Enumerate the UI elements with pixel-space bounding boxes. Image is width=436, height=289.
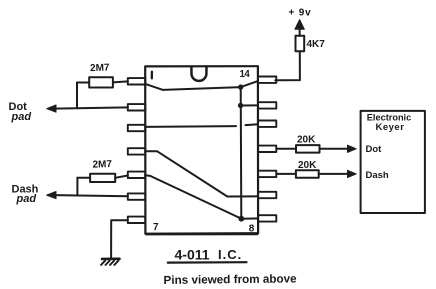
IC notch (pin 1 index) xyxy=(191,67,206,81)
svg-text:8: 8 xyxy=(249,224,255,235)
wire pin 7 to ground xyxy=(111,220,128,258)
wire internal pin4 to pin9 diagonal xyxy=(145,151,258,196)
arrowhead to dot pad xyxy=(47,105,56,112)
arrowhead keyer dash input xyxy=(348,170,357,177)
wire +9v arrow to R3 xyxy=(299,28,301,36)
arrowhead keyer dot input xyxy=(348,145,357,152)
junction dot at pin13 xyxy=(238,103,243,108)
wire R2 left lead xyxy=(77,177,90,179)
wire vertical R1 to dot pad line xyxy=(76,83,78,109)
svg-text:2M7: 2M7 xyxy=(92,159,112,171)
wire R1 right lead to pin 1 xyxy=(113,81,128,82)
wire internal stub to pin 8 xyxy=(241,218,258,220)
wire dash pad line to pin 6 xyxy=(55,195,128,196)
wire internal pin3 to pin12 (left of bus) xyxy=(145,125,236,128)
svg-text:14: 14 xyxy=(240,69,251,80)
junction dot at pin8 xyxy=(238,216,244,222)
pin 3 xyxy=(128,125,146,131)
resistor R1 2M7 body (dot pad) xyxy=(89,77,113,87)
svg-text:Keyer: Keyer xyxy=(376,122,405,133)
resistor R2 2M7 body (dash pad) xyxy=(90,174,115,182)
wire vertical R2 to dash pad line xyxy=(76,178,78,195)
svg-text:2M7: 2M7 xyxy=(90,62,110,74)
wire internal pin3 to pin12 (right of bus) xyxy=(246,123,259,126)
wire R3 to pin 14 xyxy=(275,51,300,80)
svg-text:Dash: Dash xyxy=(366,170,389,181)
wire pin 10 to R5 xyxy=(276,173,296,175)
svg-text:20K: 20K xyxy=(298,160,317,171)
wire internal vertical bus pin14/13/8 xyxy=(240,87,243,219)
svg-text:4-011: 4-011 xyxy=(175,246,210,262)
pin 5 xyxy=(128,172,146,178)
arrowhead to dash pad xyxy=(47,192,56,199)
pin 9 xyxy=(258,192,276,198)
pin 14 xyxy=(258,77,276,83)
electronic keyer box xyxy=(361,111,425,213)
underline 4011 I.C. xyxy=(168,261,247,264)
pin 4 xyxy=(128,148,146,154)
svg-text:Pins viewed from above: Pins viewed from above xyxy=(163,272,297,287)
arrowhead +9v supply xyxy=(295,20,304,30)
svg-text:7: 7 xyxy=(153,222,159,233)
svg-text:pad: pad xyxy=(11,111,32,123)
pin 13 xyxy=(258,102,276,108)
pin 8 xyxy=(258,215,276,221)
wire internal stub to pin 13 xyxy=(241,104,258,106)
svg-text:4K7: 4K7 xyxy=(307,39,326,50)
pin 11 xyxy=(258,146,276,152)
pin label 1 xyxy=(151,72,153,79)
wire R2 right lead to pin 5 xyxy=(115,176,128,178)
pin 10 xyxy=(258,171,276,177)
wire R1 left lead xyxy=(77,82,89,84)
resistor R5 20K body (dash) xyxy=(296,170,319,178)
svg-text:20K: 20K xyxy=(297,134,316,145)
svg-text:Dot: Dot xyxy=(366,144,383,155)
pin 7 xyxy=(128,217,146,223)
resistor R4 20K body (dot) xyxy=(296,145,320,153)
wire R4 to keyer dot arrow xyxy=(320,148,351,150)
svg-text:+ 9v: + 9v xyxy=(289,8,312,19)
wire R5 to keyer dash arrow xyxy=(319,173,351,175)
pin 1 xyxy=(128,78,146,84)
junction dot at pin14 bus top xyxy=(238,84,243,89)
ground symbol xyxy=(101,259,120,265)
wire internal pin5 to pin8 diagonal xyxy=(145,175,241,218)
resistor R3 4K7 body xyxy=(296,36,305,52)
svg-text:I.C.: I.C. xyxy=(218,247,242,262)
pin 2 xyxy=(128,104,146,110)
pin 6 xyxy=(128,193,146,199)
IC U1 4011 body xyxy=(145,66,258,234)
wire dot pad line to pin 2 xyxy=(55,107,128,108)
wire internal pin1 to pin14 bus xyxy=(145,81,258,90)
svg-text:pad: pad xyxy=(16,193,37,205)
wire pin 11 to R4 xyxy=(276,148,296,150)
pin 12 xyxy=(258,121,276,127)
